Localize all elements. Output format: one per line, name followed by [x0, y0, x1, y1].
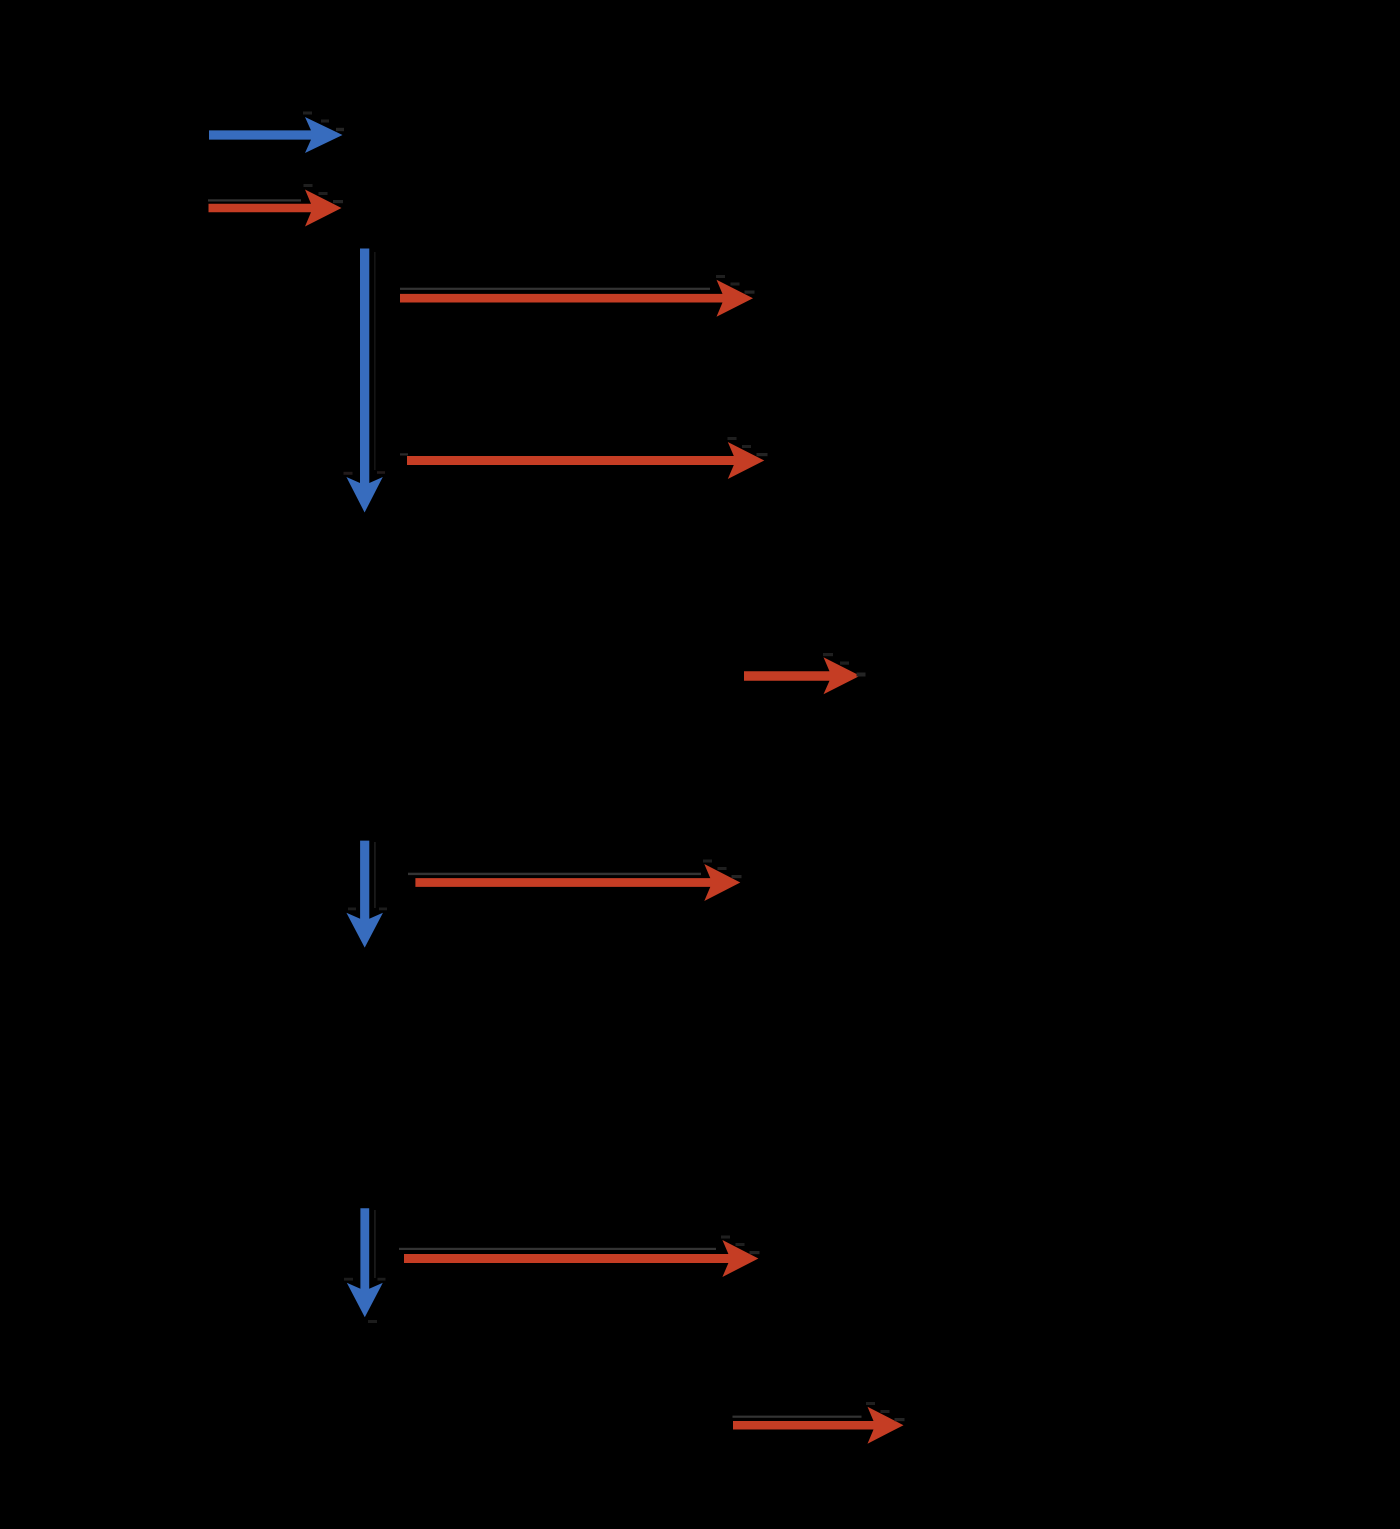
arrow A4: red horizontal arrow (first branch) [400, 275, 755, 317]
arrow A8: red horizontal arrow (third branch) [408, 860, 742, 902]
arrow A2: red horizontal arrow (below A1) [208, 184, 343, 227]
arrow A5: red horizontal arrow (second branch) [400, 437, 768, 479]
arrow A11: red horizontal arrow (bottom) [733, 1402, 905, 1444]
arrow A6: red horizontal arrow (short, middle) [744, 653, 866, 694]
arrow A3: blue vertical arrow (long, left column) [344, 249, 386, 513]
arrow A9: blue vertical arrow (lower) [344, 1208, 386, 1323]
arrow A7: blue vertical arrow (middle) [346, 841, 387, 948]
arrow A10: red horizontal arrow (fourth branch) [399, 1236, 760, 1278]
arrow A1: blue horizontal arrow (top left) [209, 112, 344, 154]
